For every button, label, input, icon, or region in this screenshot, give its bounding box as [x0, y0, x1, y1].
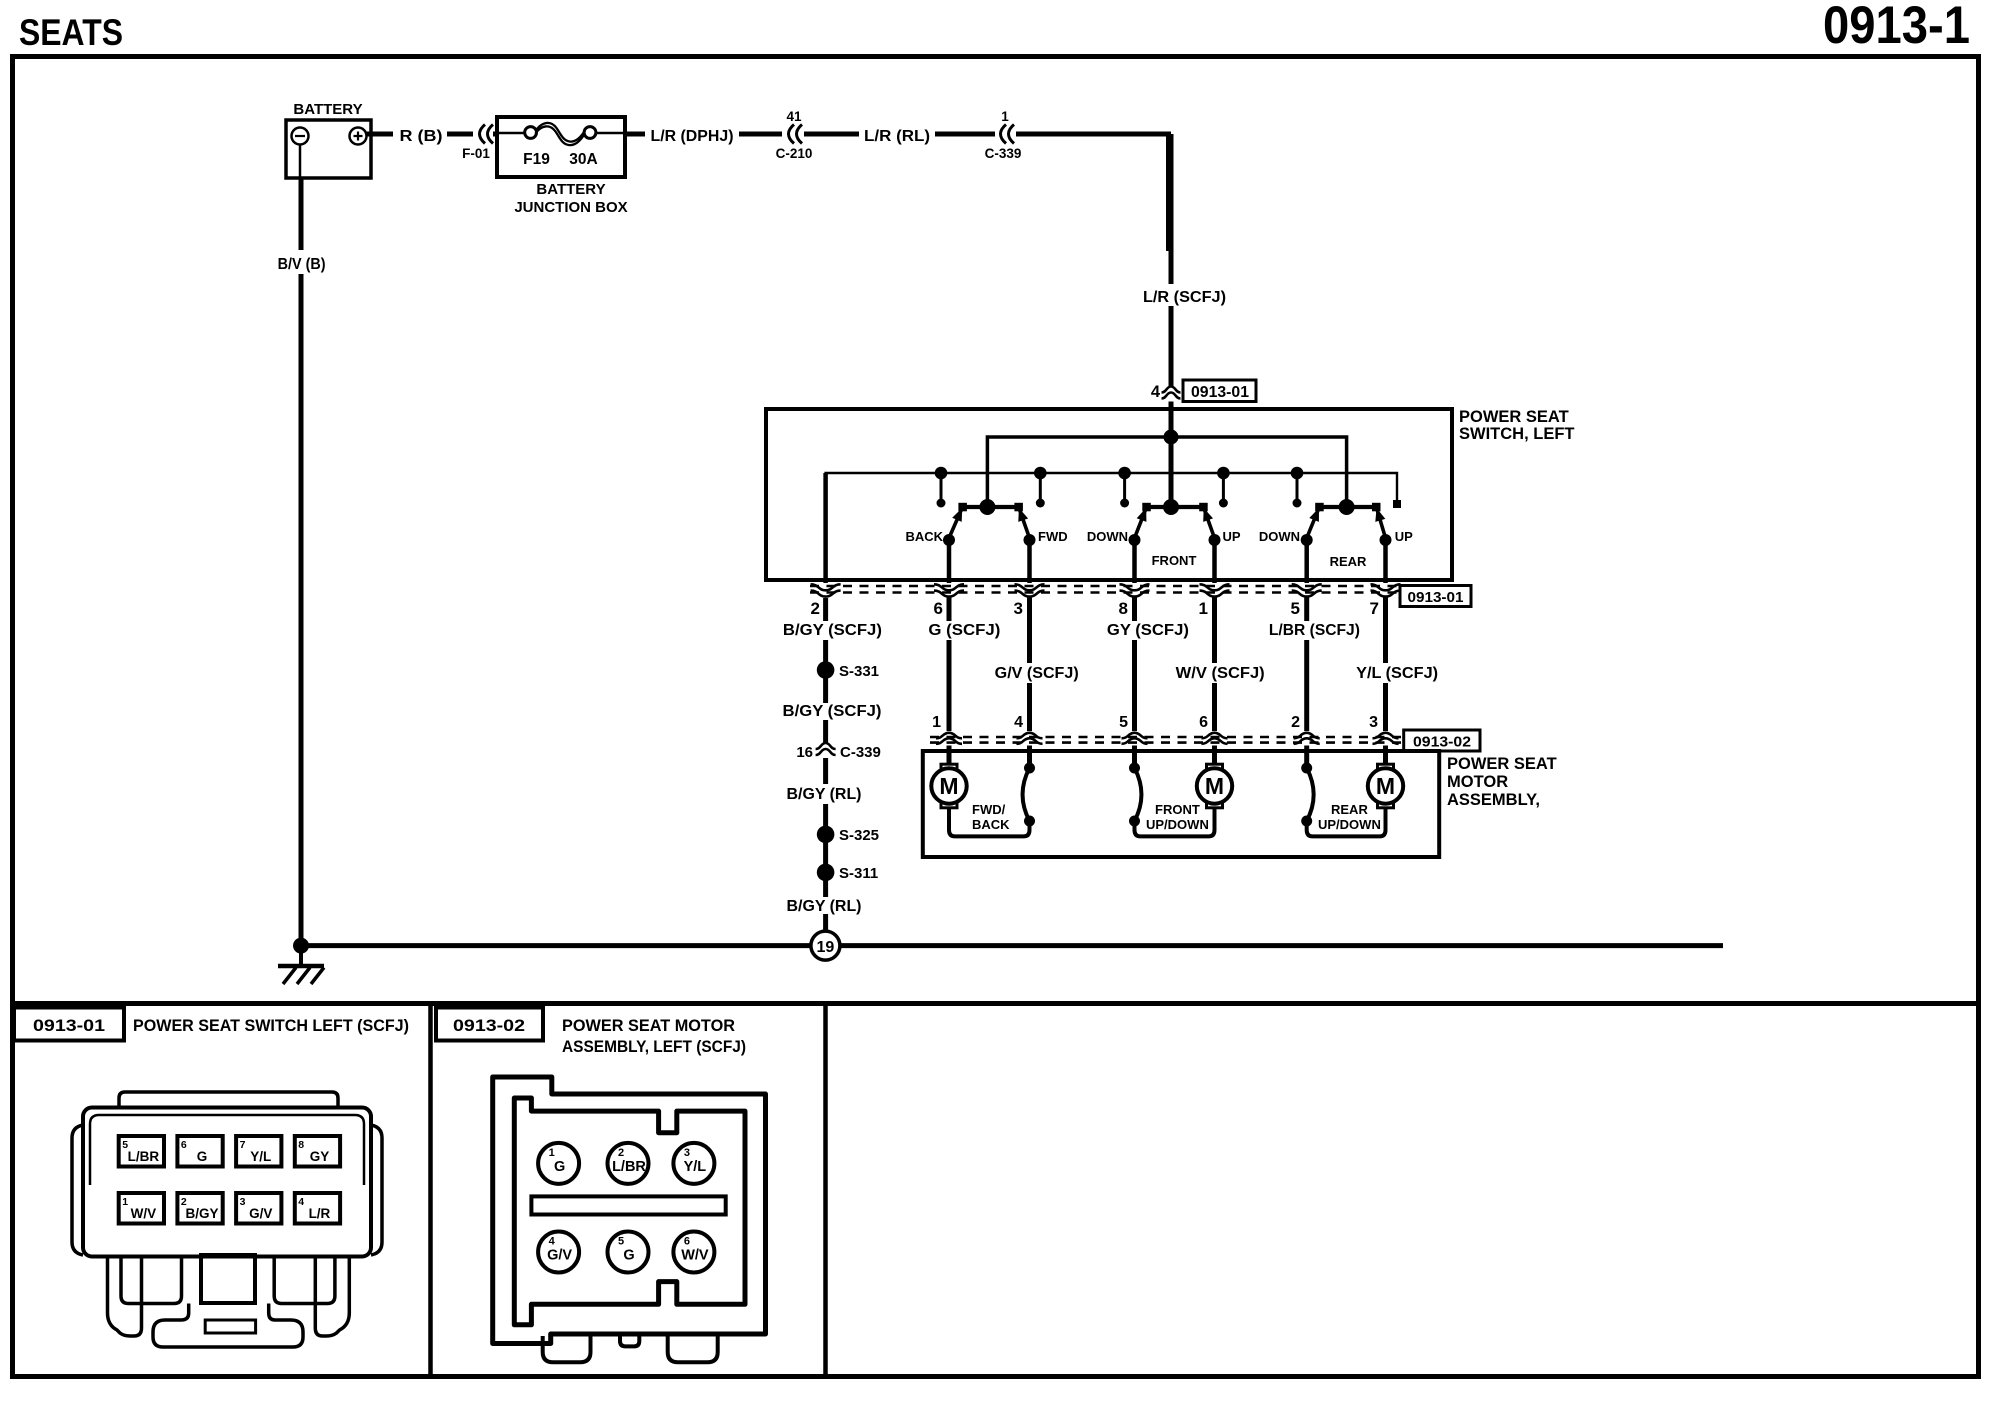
switch FRONT arm UP — [1203, 507, 1214, 538]
svg-text:L/R (DPHJ): L/R (DPHJ) — [651, 128, 734, 145]
motor M1 FWD/BACK — [941, 764, 957, 772]
contact node FRONT DOWN — [1129, 534, 1141, 546]
svg-text:0913-02: 0913-02 — [453, 1016, 525, 1035]
svg-text:2: 2 — [811, 599, 820, 618]
switch FWD/BACK arm FWD — [1019, 507, 1030, 538]
svg-text:2: 2 — [1291, 714, 1300, 731]
wire switch to connector pin8 — [1132, 542, 1137, 583]
svg-text:0913-02: 0913-02 — [1413, 734, 1471, 751]
svg-text:C-339: C-339 — [985, 146, 1022, 161]
svg-text:C-339: C-339 — [840, 744, 881, 761]
switch connector left latch — [72, 1125, 83, 1255]
switch connector body inner edge — [90, 1115, 364, 1185]
svg-text:B/GY (RL): B/GY (RL) — [787, 786, 862, 803]
contact stub FRONT DOWN — [1118, 467, 1131, 480]
wire pin2 to contact — [1304, 746, 1309, 767]
connector symbol — [1371, 584, 1401, 590]
wire B/V (B) battery to ground — [299, 178, 304, 250]
wire switch to connector pin7 — [1383, 542, 1388, 583]
svg-text:DOWN: DOWN — [1259, 529, 1300, 544]
switch FWD/BACK bar — [963, 505, 1019, 509]
power seat motor assembly box — [923, 751, 1439, 857]
svg-text:L/R (SCFJ): L/R (SCFJ) — [1143, 289, 1226, 306]
svg-text:S-331: S-331 — [839, 663, 879, 680]
switch FRONT arm DOWN — [1135, 507, 1147, 538]
wire pin5 to contact — [1132, 746, 1137, 767]
svg-text:FWD: FWD — [1038, 529, 1068, 544]
svg-text:W/V (SCFJ): W/V (SCFJ) — [1176, 665, 1265, 682]
svg-text:POWER SEAT MOTOR: POWER SEAT MOTOR — [562, 1016, 735, 1035]
detail section divider 1 — [428, 1004, 433, 1377]
svg-text:FRONT: FRONT — [1155, 802, 1200, 817]
wire W/V (SCFJ) pin1 to pin6 — [1212, 598, 1217, 664]
svg-text:POWER SEAT: POWER SEAT — [1447, 755, 1557, 773]
connector symbol — [1202, 733, 1228, 739]
switch connector right leg — [315, 1257, 349, 1336]
wire B/GY (SCFJ) pin2 — [823, 598, 828, 621]
wire G (SCFJ) pin6 to pin1 — [947, 598, 952, 622]
wire Y/L (SCFJ) pin7 to pin3 — [1383, 598, 1388, 664]
svg-text:B/V (B): B/V (B) — [278, 256, 326, 273]
wire L/BR (SCFJ) pin5 to pin2 — [1304, 598, 1309, 622]
svg-text:JUNCTION BOX: JUNCTION BOX — [514, 199, 627, 216]
svg-text:1: 1 — [1199, 599, 1208, 618]
svg-text:B/GY (SCFJ): B/GY (SCFJ) — [783, 622, 882, 639]
svg-text:L/BR (SCFJ): L/BR (SCFJ) — [1269, 622, 1360, 639]
motor connector pin 3 Y/L — [673, 1143, 714, 1184]
connector symbol — [936, 733, 962, 739]
motor connector left leg — [543, 1336, 591, 1362]
ground symbol — [299, 949, 303, 964]
svg-text:F-01: F-01 — [462, 146, 490, 161]
connector symbol — [1294, 733, 1320, 739]
svg-text:6: 6 — [181, 1139, 187, 1151]
svg-text:BACK: BACK — [905, 529, 943, 544]
power seat switch box — [766, 409, 1452, 580]
svg-text:BATTERY: BATTERY — [293, 101, 362, 118]
wire L/R (DPHJ) — [625, 132, 645, 137]
contact node motor FWD/BACK top — [1024, 763, 1035, 774]
svg-text:B/GY (SCFJ): B/GY (SCFJ) — [783, 703, 882, 720]
svg-text:GY (SCFJ): GY (SCFJ) — [1107, 622, 1189, 639]
switch REAR bar — [1319, 505, 1376, 509]
svg-text:B/GY: B/GY — [186, 1206, 219, 1221]
main diagram border frame — [13, 57, 1979, 1004]
svg-text:SWITCH, LEFT: SWITCH, LEFT — [1459, 425, 1574, 443]
node feed junction — [1164, 430, 1179, 445]
svg-text:Y/L: Y/L — [684, 1159, 707, 1175]
wire switch to connector pin3 — [1027, 542, 1032, 583]
svg-text:6: 6 — [684, 1236, 690, 1248]
contact node FRONT UP — [1209, 534, 1221, 546]
splice S-311 — [817, 864, 835, 882]
connector symbol — [1292, 584, 1322, 590]
switch connector pin 4 L/R — [295, 1193, 340, 1224]
detail section divider 2 — [823, 1004, 828, 1377]
svg-text:4: 4 — [549, 1236, 556, 1248]
svg-text:M: M — [1376, 773, 1395, 799]
motor connector right leg — [668, 1336, 718, 1362]
connector symbol — [811, 584, 841, 590]
fuse F19 30A — [497, 132, 525, 134]
svg-text:0913-01: 0913-01 — [1408, 589, 1464, 606]
svg-text:UP: UP — [1223, 529, 1241, 544]
switch connector body — [83, 1108, 371, 1257]
connector symbol — [1200, 584, 1230, 590]
connector symbol — [1017, 733, 1043, 739]
motor connector pin 6 W/V — [673, 1232, 714, 1273]
svg-text:1: 1 — [122, 1196, 128, 1208]
svg-text:41: 41 — [786, 109, 802, 124]
svg-text:DOWN: DOWN — [1087, 529, 1128, 544]
connector symbol — [934, 584, 964, 590]
ground bus wire — [301, 943, 1723, 948]
wire pin3 to motor REAR — [1383, 746, 1388, 765]
svg-text:4: 4 — [1151, 383, 1161, 401]
svg-text:UP: UP — [1395, 529, 1413, 544]
wire switch to connector pin1 — [1212, 542, 1217, 583]
wire L/R (SCFJ) vertical — [1169, 134, 1174, 284]
wire battery negative to box bottom — [299, 145, 302, 179]
svg-text:3: 3 — [240, 1196, 246, 1208]
svg-text:6: 6 — [934, 599, 943, 618]
switch connector top tab — [119, 1092, 338, 1107]
svg-text:ASSEMBLY, LEFT (SCFJ): ASSEMBLY, LEFT (SCFJ) — [562, 1037, 746, 1056]
contact stub BACK — [935, 467, 948, 480]
svg-text:FWD/: FWD/ — [972, 802, 1006, 817]
svg-text:B/GY (RL): B/GY (RL) — [787, 898, 862, 915]
contact node REAR DOWN — [1301, 534, 1313, 546]
svg-text:UP/DOWN: UP/DOWN — [1318, 817, 1381, 832]
battery positive terminal — [350, 128, 367, 145]
svg-text:Y/L (SCFJ): Y/L (SCFJ) — [1356, 665, 1438, 682]
grounding point 19 — [811, 931, 840, 960]
svg-text:1: 1 — [932, 714, 941, 731]
contact node motor REAR top — [1301, 763, 1312, 774]
contact node motor FRONT bottom — [1129, 816, 1140, 827]
contact stub REAR DOWN — [1291, 467, 1304, 480]
wire R (B) battery to fuse — [367, 132, 394, 137]
svg-text:M: M — [939, 773, 958, 799]
svg-text:5: 5 — [1291, 599, 1300, 618]
wire motor M3 bottom loop — [1307, 808, 1386, 836]
contact node motor REAR bottom — [1301, 816, 1312, 827]
wire switch to connector pin5 — [1304, 542, 1309, 583]
connector row 0913-01 dashed boundary — [810, 585, 1400, 588]
connector F-01 — [480, 125, 486, 144]
reference tag 0913-01 — [1183, 380, 1256, 402]
connector symbol — [1015, 584, 1045, 590]
svg-text:L/BR: L/BR — [128, 1149, 160, 1164]
battery junction box — [497, 117, 625, 177]
svg-text:G: G — [554, 1159, 565, 1175]
svg-text:G/V: G/V — [547, 1248, 572, 1264]
contact node REAR UP — [1380, 534, 1392, 546]
motor switch contact FWD/BACK — [1023, 768, 1030, 821]
svg-text:S-311: S-311 — [839, 865, 878, 882]
motor connector pin 1 G — [538, 1143, 579, 1184]
contact node motor FRONT top — [1129, 763, 1140, 774]
svg-text:3: 3 — [1014, 599, 1023, 618]
wire contact bus B/GY — [826, 473, 1397, 580]
svg-text:L/BR: L/BR — [612, 1159, 646, 1175]
switch connector right latch — [371, 1125, 382, 1255]
svg-text:0913-01: 0913-01 — [33, 1016, 105, 1035]
svg-text:7: 7 — [240, 1139, 246, 1151]
svg-text:R (B): R (B) — [400, 128, 443, 145]
svg-text:1: 1 — [1001, 109, 1009, 124]
battery — [286, 120, 371, 178]
svg-text:30A: 30A — [569, 151, 597, 168]
svg-text:L/R: L/R — [309, 1206, 331, 1221]
connector symbol — [1373, 733, 1399, 739]
svg-text:0913-1: 0913-1 — [1823, 0, 1970, 55]
svg-text:SEATS: SEATS — [19, 12, 123, 53]
svg-text:C-210: C-210 — [776, 146, 813, 161]
switch connector center latch — [201, 1255, 255, 1303]
svg-text:S-325: S-325 — [839, 827, 879, 844]
splice S-325 — [817, 826, 835, 844]
svg-text:UP/DOWN: UP/DOWN — [1146, 817, 1209, 832]
motor connector pin 5 G — [608, 1232, 649, 1273]
motor connector pin 2 L/BR — [608, 1143, 649, 1184]
wire L/R (RL) — [804, 132, 859, 137]
wire motor M2 bottom loop — [1135, 808, 1215, 836]
battery negative terminal — [292, 128, 309, 145]
node ground junction — [293, 938, 309, 954]
wire into switch box — [1169, 402, 1174, 508]
switch connector pin 3 G/V — [236, 1193, 281, 1224]
svg-text:8: 8 — [298, 1139, 304, 1151]
svg-text:Y/L: Y/L — [250, 1149, 271, 1164]
motor switch contact REAR — [1307, 768, 1314, 821]
switch connector pin 7 Y/L — [236, 1136, 281, 1167]
svg-text:POWER SEAT SWITCH LEFT (SCFJ): POWER SEAT SWITCH LEFT (SCFJ) — [133, 1016, 409, 1035]
switch connector bottom foot — [153, 1304, 303, 1348]
svg-text:BACK: BACK — [972, 817, 1010, 832]
contact stub FRONT UP — [1217, 467, 1230, 480]
svg-text:REAR: REAR — [1330, 554, 1367, 569]
wire into battery junction box — [493, 132, 497, 137]
svg-text:G: G — [197, 1149, 208, 1164]
detail section border frame — [13, 1004, 1979, 1377]
wire GY (SCFJ) pin8 to pin5 — [1132, 598, 1137, 622]
svg-text:4: 4 — [1014, 714, 1023, 731]
svg-text:ASSEMBLY,: ASSEMBLY, — [1447, 791, 1540, 809]
connector row 0913-02 dashed boundary — [930, 736, 1404, 739]
switch connector pin 5 L/BR — [119, 1136, 164, 1167]
svg-text:REAR: REAR — [1331, 802, 1368, 817]
svg-text:G/V (SCFJ): G/V (SCFJ) — [995, 665, 1079, 682]
switch FRONT bar — [1147, 505, 1204, 509]
svg-text:G (SCFJ): G (SCFJ) — [928, 622, 1000, 639]
motor connector inner outline — [514, 1098, 745, 1325]
switch connector pin 2 B/GY — [177, 1193, 222, 1224]
reference tag 0913-02 — [1404, 730, 1480, 751]
svg-text:W/V: W/V — [681, 1248, 709, 1264]
svg-text:POWER SEAT: POWER SEAT — [1459, 408, 1569, 426]
reference tag 0913-01 detail — [14, 1008, 124, 1041]
motor connector center tab — [620, 1336, 639, 1346]
svg-text:G/V: G/V — [249, 1206, 272, 1221]
contact stub FWD — [1034, 467, 1047, 480]
svg-text:1: 1 — [549, 1147, 555, 1159]
wire switch to connector pin2 — [823, 473, 828, 583]
motor connector center slot — [531, 1196, 725, 1214]
wire motor M1 bottom loop — [949, 808, 1030, 836]
svg-text:G: G — [623, 1248, 634, 1264]
wire B/GY (RL) — [823, 758, 828, 784]
reference tag 0913-01 lower — [1400, 586, 1471, 607]
contact node BACK — [943, 534, 955, 546]
svg-text:16: 16 — [796, 744, 813, 761]
wire G/V (SCFJ) pin3 to pin4 — [1027, 598, 1032, 664]
svg-text:FRONT: FRONT — [1152, 553, 1197, 568]
wire L/R to switch corner — [1016, 134, 1169, 251]
svg-text:5: 5 — [618, 1236, 624, 1248]
switch connector pin 6 G — [177, 1136, 222, 1167]
contact node FWD — [1024, 534, 1036, 546]
reference tag 0913-02 detail — [436, 1008, 543, 1041]
wire pin4 to contact — [1027, 746, 1032, 767]
svg-text:L/R (RL): L/R (RL) — [864, 128, 930, 145]
svg-text:0913-01: 0913-01 — [1191, 384, 1249, 401]
switch connector pin 1 W/V — [119, 1193, 164, 1224]
svg-text:2: 2 — [618, 1147, 624, 1159]
svg-text:GY: GY — [310, 1149, 330, 1164]
svg-text:5: 5 — [1119, 714, 1128, 731]
svg-text:MOTOR: MOTOR — [1447, 773, 1508, 791]
wire switch feed bus — [987, 437, 1346, 507]
motor connector outer outline — [493, 1077, 766, 1344]
splice S-331 — [817, 661, 835, 679]
wire pin6 to motor FRONT — [1212, 746, 1217, 765]
contact node motor FWD/BACK bottom — [1024, 816, 1035, 827]
switch connector left leg — [108, 1257, 142, 1336]
connector symbol — [1122, 733, 1148, 739]
wire pin1 to motor FWD/BACK — [947, 746, 952, 765]
motor M3 REAR UP/DOWN — [1378, 764, 1394, 772]
svg-text:BATTERY: BATTERY — [536, 181, 605, 198]
svg-text:W/V: W/V — [131, 1206, 157, 1221]
switch connector foot inner — [205, 1320, 255, 1333]
switch REAR arm DOWN — [1307, 507, 1320, 538]
motor M2 FRONT UP/DOWN — [1207, 764, 1223, 772]
wire switch to connector pin6 — [947, 542, 952, 583]
connector symbol — [1120, 584, 1150, 590]
switch REAR arm UP — [1376, 507, 1385, 538]
svg-text:3: 3 — [1369, 714, 1378, 731]
motor switch contact FRONT — [1135, 768, 1142, 821]
switch FWD/BACK arm BACK — [949, 507, 963, 538]
switch connector pin 8 GY — [295, 1136, 340, 1167]
svg-text:7: 7 — [1370, 599, 1379, 618]
svg-text:19: 19 — [817, 939, 835, 956]
svg-text:3: 3 — [684, 1147, 690, 1159]
svg-text:4: 4 — [298, 1196, 304, 1208]
svg-text:M: M — [1205, 773, 1224, 799]
motor connector pin 4 G/V — [538, 1232, 579, 1273]
svg-text:F19: F19 — [523, 151, 550, 168]
svg-text:6: 6 — [1199, 714, 1208, 731]
svg-text:8: 8 — [1119, 599, 1128, 618]
